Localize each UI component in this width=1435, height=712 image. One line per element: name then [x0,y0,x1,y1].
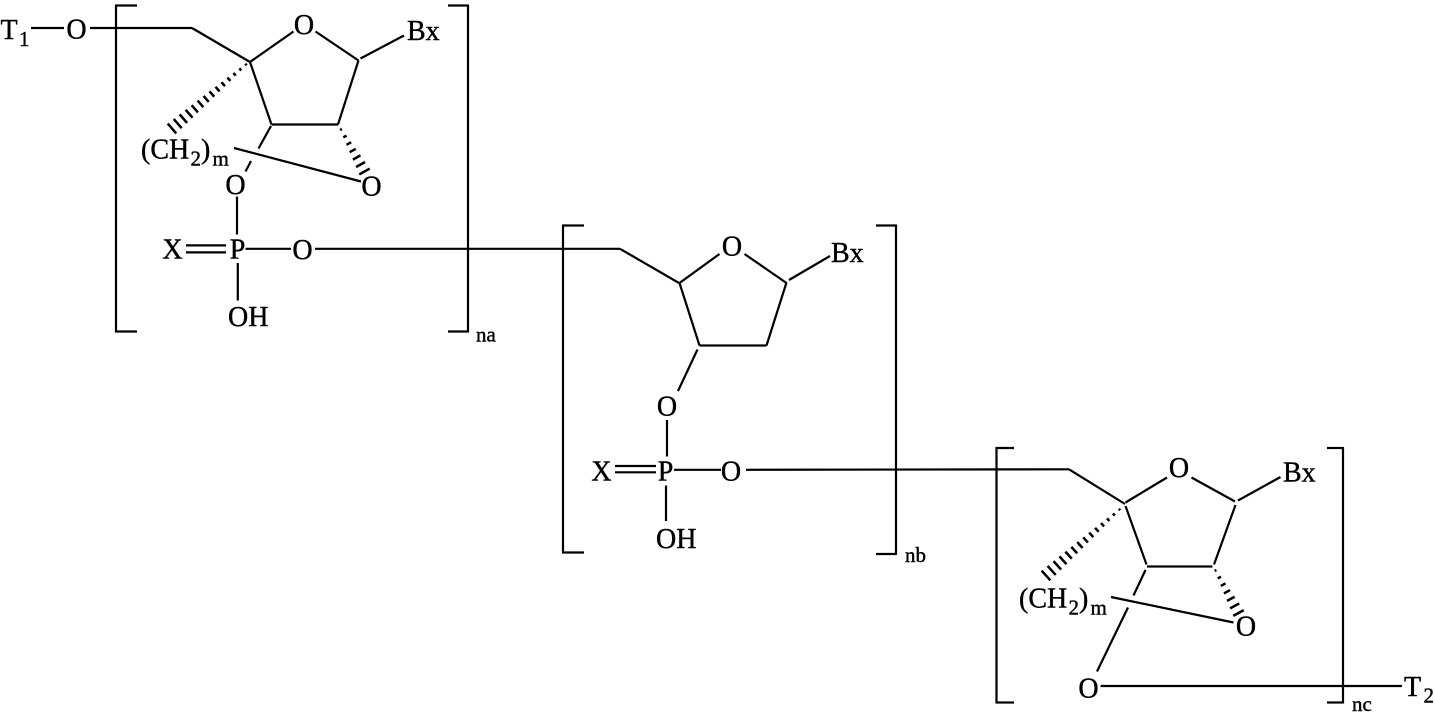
svg-text:2: 2 [191,147,202,171]
svg-text:O: O [361,172,381,203]
svg-text:O: O [721,457,741,488]
svg-text:nb: nb [905,543,926,567]
svg-text:O: O [657,391,677,422]
svg-text:2: 2 [1424,684,1435,708]
svg-text:1: 1 [19,27,30,51]
svg-text:2: 2 [1069,596,1080,620]
svg-text:O: O [1078,674,1098,705]
svg-text:O: O [225,170,245,201]
svg-text:O: O [722,232,742,263]
svg-text:(CH: (CH [1019,584,1067,615]
svg-text:Bx: Bx [831,238,864,269]
svg-text:m: m [213,147,229,171]
svg-text:O: O [66,15,86,46]
svg-text:T: T [1404,672,1421,703]
svg-text:m: m [1091,596,1107,620]
svg-text:OH: OH [228,302,268,333]
svg-text:P: P [230,235,246,266]
svg-text:Bx: Bx [407,16,440,47]
svg-text:O: O [292,235,312,266]
svg-text:P: P [658,457,674,488]
svg-text:O: O [294,10,314,41]
svg-text:(CH: (CH [141,135,189,166]
svg-text:): ) [1079,584,1088,615]
svg-text:X: X [162,235,182,266]
svg-text:nc: nc [1352,692,1372,712]
svg-text:O: O [1169,453,1189,484]
svg-text:O: O [1236,612,1256,643]
svg-text:T: T [1,15,18,46]
svg-text:): ) [201,135,210,166]
svg-text:Bx: Bx [1283,458,1316,489]
svg-text:OH: OH [656,524,696,555]
svg-text:na: na [476,323,497,347]
svg-text:X: X [591,457,611,488]
